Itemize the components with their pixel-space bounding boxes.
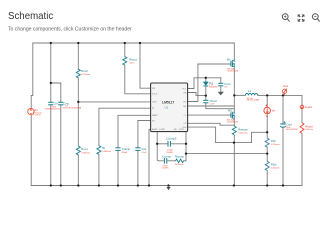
svg-text:6.98kohm: 6.98kohm (81, 152, 90, 154)
wire AGND (149, 129, 151, 185)
resistor Rfbb (265, 161, 269, 170)
svg-text:ILoad: ILoad (305, 105, 312, 109)
wire comp loop left (157, 132, 163, 161)
svg-text:Cvcc: Cvcc (224, 82, 231, 86)
junction gnd rail / Cramp (117, 184, 119, 186)
zoom-out icon (312, 14, 319, 22)
svg-text:6.98kohm: 6.98kohm (102, 151, 111, 153)
junction FB at comp loop (185, 152, 187, 154)
resistor Rcomp (176, 159, 184, 163)
svg-text:Css: Css (141, 147, 146, 151)
junction VCC rail / D1 anode (205, 77, 207, 79)
junction gnd rail / Cinx (60, 184, 62, 186)
svg-text:1.00kohm: 1.00kohm (271, 167, 280, 169)
svg-text:Ruv1: Ruv1 (81, 147, 88, 151)
capacitor Cout (280, 121, 286, 127)
junction gnd rail / Rsense (233, 184, 235, 186)
wire Ccomp2 branch (157, 143, 167, 145)
resistor Rfbt (265, 138, 269, 147)
wire D1 column (205, 78, 207, 82)
wire Rvcc column (124, 43, 126, 57)
capacitor Ccomp (164, 158, 166, 164)
diode D1 (203, 82, 208, 86)
wire M2 column (233, 95, 235, 111)
junction gnd rail / AGND (148, 184, 150, 186)
wire SW pin (188, 105, 235, 107)
wire comp loop right (185, 132, 187, 161)
svg-text:Rt: Rt (102, 146, 105, 150)
resistor Rt (97, 146, 101, 155)
svg-text:Rcomp: Rcomp (175, 154, 184, 158)
svg-text:Rsense: Rsense (238, 127, 248, 131)
voltage source Vin (28, 108, 34, 114)
svg-text:Cin: Cin (54, 101, 59, 105)
svg-text:Ccomp: Ccomp (162, 154, 171, 158)
junction Rsense / CSG (233, 141, 235, 143)
wire Cin column (50, 43, 52, 102)
svg-text:0.1uF: 0.1uF (141, 152, 147, 154)
transistor M2 (231, 112, 235, 119)
capacitor Cin (48, 102, 53, 105)
junction gnd rail / Css (137, 184, 139, 186)
resistor Rsense (232, 126, 236, 135)
node SW (233, 94, 235, 96)
wire M1 column (233, 43, 235, 59)
svg-text:C0G/NP0: C0G/NP0 (162, 168, 169, 170)
svg-text:Vo: Vo (272, 109, 276, 113)
junction Vin rail / Rvcc (124, 42, 126, 44)
wire SS (138, 121, 151, 148)
wire load branch (301, 95, 303, 105)
wire RT (99, 108, 151, 145)
junction gnd rail / Rt (98, 184, 100, 186)
node FB divider tap (266, 152, 268, 154)
wire SW to Vout rail (234, 94, 245, 96)
transistor M1 (231, 59, 235, 67)
wire LO (188, 114, 231, 116)
svg-text:M1: M1 (227, 58, 231, 62)
wire HO (188, 64, 231, 102)
junction comp loop left (156, 143, 158, 145)
probe Vout (283, 89, 287, 96)
svg-text:Rload: Rload (305, 125, 313, 129)
svg-text:3.9nF: 3.9nF (162, 166, 168, 168)
capacitor Cvcc (218, 83, 223, 86)
svg-text:40V 25A: 40V 25A (227, 118, 235, 121)
resistor Ruv1 (76, 146, 80, 155)
junction Vin rail / Cin (50, 42, 52, 44)
probe ILoad (300, 105, 304, 109)
wire CS (188, 123, 235, 125)
svg-text:VOUT: VOUT (179, 129, 185, 131)
wire VIN pin (140, 43, 151, 88)
node VOUT sense (266, 131, 268, 133)
probe Vo (264, 105, 271, 117)
junction gnd rail / Ruv1 (77, 184, 79, 186)
svg-text:40V 25A: 40V 25A (227, 67, 235, 70)
svg-text:Cboot: Cboot (210, 99, 218, 103)
wire HB (188, 93, 206, 96)
ground at Cvcc (218, 92, 224, 96)
wire left rail lower (30, 115, 32, 185)
junction gnd rail / Cout (282, 184, 284, 186)
resistor Rvcc (123, 57, 127, 65)
wire Ruv column (77, 43, 79, 69)
node HB / D1 cathode / Cboot (205, 94, 207, 96)
junction Vout rail / Cout (282, 94, 284, 96)
wire Cvcc column (220, 78, 222, 83)
capacitor Ccomp2 (168, 141, 170, 147)
junction Vout rail / Vo branch (266, 94, 268, 96)
svg-text:Rvccx: Rvccx (129, 57, 137, 61)
wire Rsense lower (233, 135, 235, 185)
ground main (166, 187, 170, 190)
svg-text:EEV-FK1V820P: EEV-FK1V820P (286, 129, 298, 131)
svg-text:U1: U1 (165, 106, 169, 110)
svg-text:V = 24.0V: V = 24.0V (33, 115, 41, 117)
svg-text:RAMP: RAMP (152, 114, 158, 117)
svg-text:Rfbt: Rfbt (271, 139, 276, 143)
svg-text:VCC: VCC (182, 88, 187, 90)
svg-text:COMP: COMP (159, 129, 165, 131)
svg-text:Ccomp2: Ccomp2 (166, 137, 177, 141)
wire Vo branch (266, 95, 268, 107)
zoom-in icon (282, 14, 289, 22)
svg-text:LM5117: LM5117 (162, 100, 174, 104)
capacitor Cboot (203, 100, 208, 103)
svg-text:3.00mohm: 3.00mohm (238, 133, 248, 135)
svg-text:0.1uF: 0.1uF (210, 104, 216, 106)
svg-text:49.9kohm: 49.9kohm (175, 164, 184, 166)
junction gnd rail / Cin (50, 184, 52, 186)
junction gnd rail / Rfbb (266, 184, 268, 186)
svg-text:TPSE686M050R0150: TPSE686M050R0150 (45, 109, 61, 111)
wire UVLO (78, 101, 150, 103)
svg-text:Ruv2: Ruv2 (81, 69, 88, 73)
svg-text:3.43ohm: 3.43ohm (305, 129, 313, 131)
svg-text:L1: L1 (248, 89, 252, 93)
svg-text:4.22kohm: 4.22kohm (271, 144, 280, 146)
node UVLO divider tap (77, 101, 79, 103)
inductor L1 (245, 93, 257, 95)
svg-text:49.9kohm: 49.9kohm (81, 74, 90, 76)
capacitor Cinx (58, 102, 63, 105)
svg-text:Cramp: Cramp (122, 147, 131, 151)
junction gnd rail / ground symbol (167, 184, 169, 186)
wire Cinx branch (51, 83, 61, 102)
wire CSG staircase (188, 127, 267, 143)
wire Cboot column (205, 96, 207, 100)
fullscreen icon (298, 14, 305, 21)
capacitor Css (135, 148, 140, 151)
svg-text:120pF: 120pF (167, 150, 173, 152)
wire Cout column (282, 95, 284, 123)
junction comp loop right (185, 143, 187, 145)
svg-text:0ohm: 0ohm (129, 63, 134, 65)
wire top rail Vin (31, 43, 234, 108)
svg-text:SW: SW (183, 106, 186, 108)
capacitor Cramp (115, 148, 120, 151)
IC U1 LM5117 (151, 83, 188, 132)
svg-text:CSD18532Q5B: CSD18532Q5B (227, 70, 238, 72)
svg-text:B0540WS-7: B0540WS-7 (209, 87, 218, 89)
svg-text:UVLO: UVLO (152, 102, 158, 104)
junction Vin rail / Ruv2 (77, 42, 79, 44)
wire comp bottom branch (168, 160, 176, 162)
svg-text:M2: M2 (228, 108, 232, 112)
wire FB (186, 153, 267, 155)
svg-text:CSD18532Q5B: CSD18532Q5B (227, 122, 238, 124)
wire VCC (188, 78, 221, 89)
resistor Ruv2 (76, 69, 80, 78)
junction Cin / Cinx branch (50, 82, 52, 84)
resistor Rload (300, 123, 304, 134)
svg-text:Schematic: Schematic (8, 11, 53, 22)
junction Vin rail / VIN pin (139, 42, 141, 44)
svg-text:AGND: AGND (152, 128, 158, 131)
wire bottom ground rail (31, 185, 302, 187)
svg-text:VCCX: VCCX (152, 94, 158, 96)
svg-text:820pF: 820pF (122, 152, 128, 154)
svg-text:Rfbb: Rfbb (271, 162, 277, 166)
svg-text:To change components, click Cu: To change components, click Customize on… (8, 27, 132, 33)
wire RAMP (118, 115, 151, 147)
svg-text:Vout: Vout (283, 84, 288, 88)
